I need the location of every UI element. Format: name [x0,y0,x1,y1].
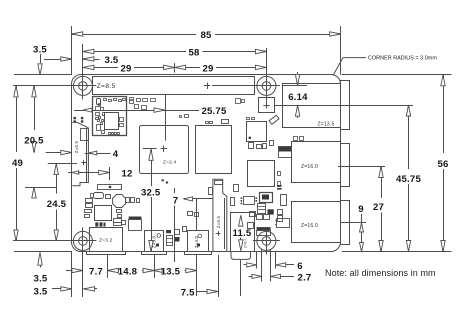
electrolytic cap [129,217,142,220]
auxiliary extension line left [25,187,56,189]
inductor octagon [113,195,126,208]
svg-text:20.5: 20.5 [24,135,44,146]
GPIO 40-pin header J8 [93,77,255,95]
svg-text:Z=6.0: Z=6.0 [244,239,248,248]
three caps row [126,198,130,203]
BCM2711 SoC Z=2.4 [140,126,189,174]
svg-text:CORNER RADIUS = 3.0mm: CORNER RADIUS = 3.0mm [368,56,437,62]
dimension 29 right [175,67,200,69]
svg-text:Z=8.5: Z=8.5 [97,83,116,90]
dimension 27 [381,167,383,199]
svg-text:2.7: 2.7 [298,272,312,283]
svg-text:4: 4 [113,149,119,160]
svg-text:12: 12 [121,168,132,179]
caps below PMIC [95,222,98,226]
mounting hole bottom-right [257,231,276,250]
svg-text:Z=3.2: Z=3.2 [99,238,113,244]
dimension 56 right [443,75,445,153]
svg-text:6: 6 [297,261,303,272]
pads above DSI [74,117,76,119]
hdmi1 centre extension down [196,255,198,296]
module bottom pads [109,133,111,135]
svg-text:24.5: 24.5 [47,199,67,210]
dimension 25.75 soc centre [74,110,199,112]
svg-text:3.5: 3.5 [34,286,48,297]
two pads right of module [130,98,134,100]
extension line board left edge up [71,26,73,75]
svg-text:7.7: 7.7 [89,267,103,278]
extension line hole3 centre left [13,240,73,242]
dark mid component [260,193,273,203]
svg-text:7: 7 [173,196,179,207]
corner radius leader note [333,58,366,76]
svg-text:29: 29 [202,63,213,74]
parts right of USB controller [278,172,281,176]
dimension 32.5 soc centre to bottom edge [151,149,153,186]
svg-text:Z=13.5: Z=13.5 [318,122,335,128]
svg-text:29: 29 [120,63,131,74]
svg-text:49: 49 [12,158,23,169]
audio jack centre extension down [240,260,242,297]
SPI flash [244,197,255,205]
svg-text:14.8: 14.8 [118,267,138,278]
parts right of PMIC [117,210,122,213]
caps at left edge [86,199,93,203]
dimension 7.7 [66,270,73,272]
svg-text:56: 56 [437,159,448,170]
parts above hdmi1 [188,212,193,216]
svg-text:85: 85 [200,30,212,41]
dimension 49 [16,86,18,152]
dimension 2.7 hole dia [249,276,252,278]
lower cluster right-centre [258,204,266,214]
vertical part [281,195,287,206]
USB-C power connector Z=3.2 [90,228,123,252]
pad tangent lines hole4 [256,252,258,269]
polarized cap [94,193,104,199]
svg-text:3.5: 3.5 [33,45,47,56]
micro HDMI0 connector [145,231,164,252]
USB stack upper Z=16.0 [292,142,341,183]
part below RAM [215,181,223,185]
dark topped component [279,147,292,152]
tantalum cap near audio [257,227,271,231]
dimension 4 dsi offset [46,152,72,154]
PCB board outline 85x56 [72,75,341,252]
camera connector centre extension down [218,255,220,297]
usb stack upper centre extension [338,166,385,168]
dimension 6 pad dia [244,264,247,266]
extension line bottom edge right [342,251,452,253]
dimension 9 [361,214,363,252]
USB controller chip [248,161,275,187]
dimension 29 left [83,67,118,69]
svg-text:Z=16.0: Z=16.0 [301,164,318,170]
dimension 20.5 [34,86,36,130]
parts above RAM [206,122,209,124]
extension line bottom edge left [14,251,72,253]
SOT component [277,219,290,228]
parts right of hdmi0 [166,230,171,233]
ethernet centre extension line [274,105,413,107]
svg-text:Z=5.5: Z=5.5 [216,216,221,229]
svg-text:Z=3.0: Z=3.0 [152,236,157,249]
mounting hole top-left [73,76,92,95]
power connector centre extension down [107,255,109,278]
svg-text:25.75: 25.75 [201,106,226,117]
svg-text:Z=2.4: Z=2.4 [163,159,177,165]
svg-text:6.14: 6.14 [288,92,308,103]
mounting hole top-right [257,76,276,95]
LPDDR4 RAM [196,126,232,174]
camera connector CSI Z=5.5 [213,179,227,251]
tilted component near PoE [269,115,279,124]
extension line board right edge up [340,26,342,75]
extension line hole1 centre left [13,85,73,87]
svg-text:3.5: 3.5 [105,55,119,66]
parts left of USB controller [234,185,239,192]
cap left of inductor [106,195,111,199]
dimension 85 top [72,34,196,36]
audio jack [231,213,255,252]
mounting hole bottom-left [73,231,92,250]
dimension 58 top [83,51,186,53]
svg-text:45.75: 45.75 [396,174,421,185]
svg-text:11.5: 11.5 [233,228,252,239]
dimension 13.5 [154,269,162,273]
dimension 14.8 [107,268,118,272]
svg-text:7.5: 7.5 [181,287,195,298]
decoupling parts under GPIO [137,99,141,102]
parts below ethernet [294,137,298,141]
dimension 24.5 [56,164,58,194]
USB stack lower Z=16.0 [292,202,341,243]
display connector DSI Z=5.5 [72,122,88,186]
micro HDMI1 connector [188,231,209,252]
module small parts [97,99,101,105]
svg-text:9: 9 [358,204,364,215]
dimension 3.5 top-left horizontal [44,59,72,61]
dsi lower extension line [48,163,77,165]
PoE header [259,98,275,113]
hdmi0 centre extension down [154,255,156,278]
dimension 12 [68,172,72,174]
dimension 45.75 [408,105,410,169]
svg-text:58: 58 [188,47,200,58]
wireless SoC [105,113,119,130]
svg-text:27: 27 [373,202,384,213]
run header [98,185,122,190]
svg-text:32.5: 32.5 [141,188,161,199]
svg-text:13.5: 13.5 [161,267,181,278]
extension line hole2 centre up [266,48,268,59]
chip top-right [247,122,267,142]
svg-text:3.5: 3.5 [34,274,48,285]
extension line hole1 centre up [82,44,84,76]
board vertical centreline [174,63,176,73]
parts row below chip [249,143,254,149]
extension line top edge left [14,74,72,76]
extension line top edge right [342,74,452,76]
wireless module shield [93,97,127,136]
svg-text:Note: all dimensions in mm: Note: all dimensions in mm [325,268,436,278]
ethernet jack Z=13.5 [283,84,341,128]
two tiny parts below soc [162,179,164,181]
svg-text:Z=16.0: Z=16.0 [301,223,318,229]
extension line board left edge down [71,252,73,298]
svg-text:Z=5.5: Z=5.5 [74,141,79,154]
usb stack lower centre extension [340,222,366,224]
PMIC chip [95,206,112,221]
